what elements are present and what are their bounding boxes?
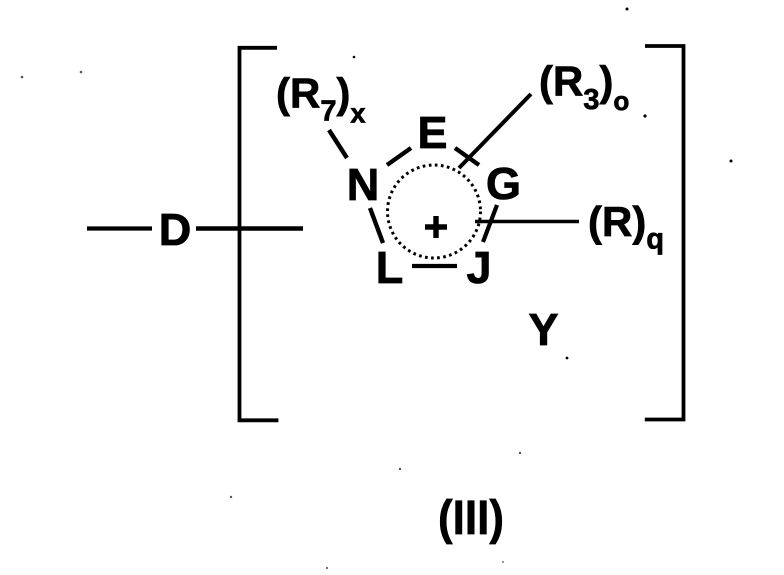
- wire: bond E to G: [455, 148, 479, 165]
- node E: [421, 117, 446, 148]
- wire: bond N to L: [370, 208, 383, 243]
- speck dot: [21, 76, 24, 79]
- wire: bond to (R)q crossing G-J bond: [475, 220, 579, 224]
- label (R7)x: [278, 77, 365, 122]
- speck dot: [353, 56, 356, 59]
- speck dot: [230, 496, 232, 498]
- wire: bond L to J: [412, 264, 457, 268]
- speck dot: [626, 8, 629, 11]
- node D: [162, 214, 190, 245]
- speck dot: [80, 71, 83, 74]
- node L: [379, 252, 402, 283]
- wire: bond (R7)x to N: [329, 130, 347, 158]
- node J: [467, 252, 488, 283]
- aromatic dotted circle: [388, 165, 481, 258]
- label (III): [440, 499, 502, 544]
- node G: [488, 168, 518, 200]
- right bracket: [645, 46, 684, 420]
- speck dot: [399, 468, 401, 470]
- speck dot: [519, 452, 521, 454]
- label (R)q: [590, 206, 662, 255]
- speck dot: [730, 160, 733, 163]
- plus charge: [425, 216, 447, 238]
- wire: bond (R3)o crossing E-G bond: [459, 94, 531, 168]
- wire: D to inside left bracket: [196, 226, 303, 231]
- speck dot: [566, 357, 569, 360]
- speck dot: [643, 114, 646, 117]
- label (R3)o: [541, 65, 628, 110]
- speck dot: [326, 567, 328, 569]
- wire: bond N to E: [387, 148, 411, 165]
- node N: [350, 169, 376, 200]
- wire: dash left of D: [87, 226, 152, 230]
- node Y: [529, 314, 558, 345]
- left bracket: [240, 48, 279, 421]
- wire: bond G to J: [483, 205, 497, 242]
- speck dot: [502, 561, 504, 563]
